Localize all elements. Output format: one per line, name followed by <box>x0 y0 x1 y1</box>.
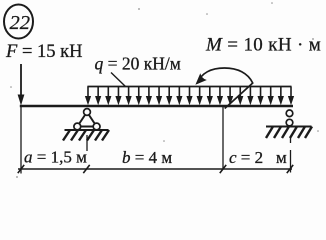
svg-text:F = 15 кН: F = 15 кН <box>5 42 82 62</box>
svg-text:b = 4 м: b = 4 м <box>122 148 172 167</box>
beam <box>20 105 293 108</box>
ground hatching under pin support <box>63 130 109 141</box>
svg-text:q = 20 кН/м: q = 20 кН/м <box>95 54 181 74</box>
dimension tick at x=223 <box>220 165 226 173</box>
moment M arc with tail and arrowhead <box>195 68 252 109</box>
extension line at left beam end <box>20 107 22 174</box>
leader line from q label to load <box>111 73 126 87</box>
label M = 10 kN·m <box>205 35 321 56</box>
svg-text:c = 2: c = 2 <box>229 148 263 167</box>
svg-text:22: 22 <box>10 12 31 34</box>
svg-text:M = 10 кН · м: M = 10 кН · м <box>205 35 321 56</box>
distributed load q comb <box>87 86 291 88</box>
dimension line <box>18 168 292 170</box>
ground hatching under roller support <box>266 127 312 139</box>
distributed load arrows <box>85 87 294 106</box>
svg-text:a = 1,5 м: a = 1,5 м <box>24 148 87 167</box>
scan speckles <box>10 2 319 178</box>
label q = 20 kN/m <box>95 54 181 74</box>
problem number circle 22 <box>4 5 33 39</box>
dimension tick at x=86.5 <box>83 165 89 173</box>
extension line at pin support <box>86 135 88 151</box>
dimension tick at x=21 <box>18 165 24 173</box>
pin support (left, triangle on hinges) <box>74 109 100 130</box>
dimension tick at x=290 <box>287 165 293 173</box>
extension line at moment point <box>222 107 224 169</box>
roller support (right, two hinges) <box>286 110 293 126</box>
label F = 15 kN <box>5 42 82 62</box>
extension line at roller support <box>290 136 292 173</box>
force F arrow <box>18 64 25 106</box>
svg-text:м: м <box>276 148 287 167</box>
